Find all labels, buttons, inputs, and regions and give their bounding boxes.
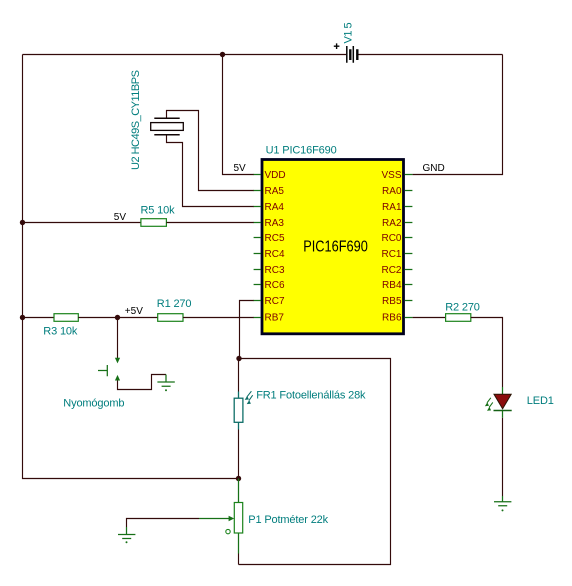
svg-text:RA2: RA2 xyxy=(382,218,402,229)
wire RA3 row right xyxy=(166,222,254,224)
node junction top xyxy=(220,52,225,57)
svg-text:RC3: RC3 xyxy=(265,265,285,276)
svg-text:VDD: VDD xyxy=(265,170,286,181)
svg-text:RA5: RA5 xyxy=(265,186,285,197)
wire P1 wiper to ground xyxy=(127,519,200,528)
wire down to FR1 xyxy=(238,359,240,392)
wire top rail right of battery xyxy=(358,54,502,56)
node FR1 bottom xyxy=(236,476,241,481)
svg-text:5V: 5V xyxy=(234,163,247,174)
wire R2 to LED xyxy=(471,318,503,388)
svg-text:RC7: RC7 xyxy=(265,296,285,307)
svg-text:R2 270: R2 270 xyxy=(445,301,480,313)
svg-text:VSS: VSS xyxy=(381,170,401,181)
label PIC16F690 center xyxy=(303,238,368,256)
pin stubs right xyxy=(405,175,413,318)
svg-text:FR1 Fotoellenállás 28k: FR1 Fotoellenállás 28k xyxy=(256,389,366,401)
wire FR1 to node xyxy=(238,430,240,479)
svg-text:RC1: RC1 xyxy=(381,249,401,260)
svg-text:5V: 5V xyxy=(114,212,127,223)
wire RB7 row: rail to R3 xyxy=(23,317,55,319)
svg-text:RB5: RB5 xyxy=(382,296,402,307)
wire R3 to R1 xyxy=(78,317,157,319)
pin stubs left xyxy=(254,175,261,318)
LED1 xyxy=(485,387,512,418)
node left rail RB7 row xyxy=(20,315,25,320)
wire RA3 row left xyxy=(23,222,141,224)
wire P1 bottom to loop xyxy=(238,554,240,565)
svg-text:RB6: RB6 xyxy=(382,313,402,324)
svg-text:+5V: +5V xyxy=(125,306,143,317)
svg-text:Nyomógomb: Nyomógomb xyxy=(63,398,124,410)
svg-text:RA3: RA3 xyxy=(265,218,285,229)
svg-text:P1 Potméter 22k: P1 Potméter 22k xyxy=(248,514,328,526)
svg-text:RB7: RB7 xyxy=(265,313,285,324)
wire LED to ground xyxy=(502,418,504,496)
svg-text:RA0: RA0 xyxy=(382,186,402,197)
push button wire from tap xyxy=(117,318,119,360)
svg-text:R1 270: R1 270 xyxy=(157,298,192,310)
push button Nyomógomb xyxy=(98,358,120,381)
wire left rail down and bottom horizontal to node xyxy=(23,55,239,479)
IC U1 PIC16F690 body xyxy=(262,160,404,334)
svg-text:RA1: RA1 xyxy=(382,202,402,213)
svg-text:RA4: RA4 xyxy=(265,202,285,213)
wire loop rectangle xyxy=(239,359,391,565)
svg-text:RC6: RC6 xyxy=(265,280,285,291)
photoresistor FR1 xyxy=(234,391,253,429)
ground at LED xyxy=(494,496,511,511)
svg-text:PIC16F690: PIC16F690 xyxy=(303,238,368,256)
wire top rail left of battery xyxy=(23,54,347,56)
wire 5V drop to VDD xyxy=(223,55,255,175)
svg-text:R3 10k: R3 10k xyxy=(43,325,78,337)
resistor R3 xyxy=(54,314,78,322)
node loop top xyxy=(236,356,241,361)
ground at P1 wiper xyxy=(118,527,135,543)
ground at button xyxy=(157,375,174,392)
svg-text:LED1: LED1 xyxy=(527,395,554,407)
resistor R5 xyxy=(141,219,167,227)
resistor R2 xyxy=(446,314,471,322)
svg-text:V1 5: V1 5 xyxy=(343,22,355,43)
node left rail RA3 xyxy=(20,220,25,225)
wire R1 to RB7 xyxy=(183,317,254,319)
wire right rail down to VSS xyxy=(413,55,503,175)
battery V1 xyxy=(334,43,358,62)
svg-text:RC2: RC2 xyxy=(381,265,401,276)
node button tap xyxy=(115,315,120,320)
wire RC7 to loop xyxy=(240,301,255,359)
resistor R1 xyxy=(158,314,183,322)
wire RB6 to R2 xyxy=(413,317,446,319)
potentiometer P1 xyxy=(199,479,243,554)
svg-text:RB4: RB4 xyxy=(382,280,402,291)
crystal U2 xyxy=(151,111,254,207)
svg-text:R5 10k: R5 10k xyxy=(141,204,176,216)
svg-text:U2 HC49S_CY11BPS: U2 HC49S_CY11BPS xyxy=(130,70,142,170)
svg-text:U1 PIC16F690: U1 PIC16F690 xyxy=(266,145,337,157)
svg-text:GND: GND xyxy=(423,163,445,174)
svg-text:RC5: RC5 xyxy=(265,233,285,244)
svg-text:RC0: RC0 xyxy=(381,233,401,244)
svg-text:RC4: RC4 xyxy=(265,249,285,260)
wire button to ground xyxy=(118,375,167,390)
